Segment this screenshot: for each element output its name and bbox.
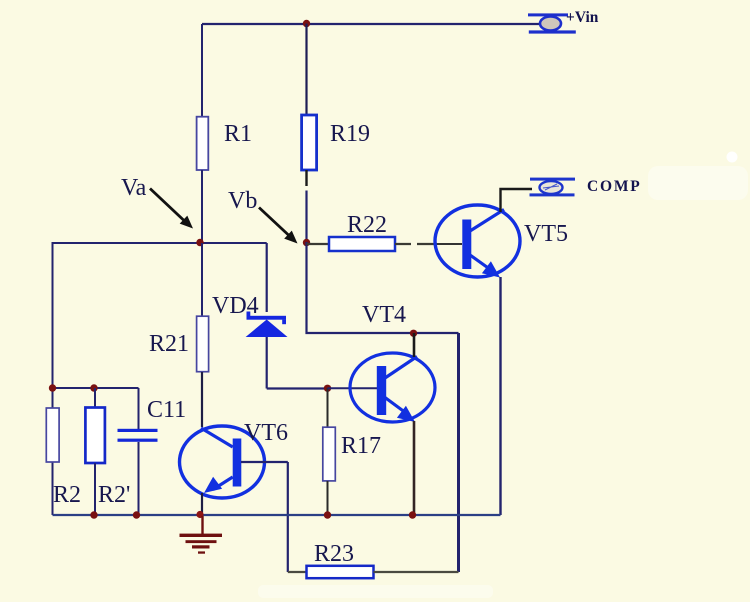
capacitor C11	[118, 388, 187, 515]
svg-text:VD4: VD4	[212, 293, 259, 319]
white patch artifact lower edge	[258, 585, 493, 598]
diode VD4 (zener)	[212, 293, 288, 337]
resistor R17	[323, 388, 381, 515]
node R2' top	[90, 384, 97, 391]
node Vb	[303, 239, 310, 246]
node VT4 collector	[410, 330, 417, 337]
resistor R19	[302, 24, 370, 242]
wire VD4 bottom	[266, 337, 268, 366]
svg-text:VT6: VT6	[244, 420, 288, 446]
resistor R1	[197, 24, 252, 243]
wire left rail	[52, 242, 54, 515]
node VT4 emitter bottom	[409, 511, 416, 518]
node C11 bottom	[133, 511, 140, 518]
white patch artifact right of COMP	[648, 166, 748, 200]
transistor VT5	[435, 205, 568, 278]
resistor R23	[288, 541, 459, 578]
svg-text:R17: R17	[341, 433, 381, 459]
wire VT5 emitter down	[499, 277, 501, 515]
connector COMP	[530, 178, 642, 197]
resistor R22	[307, 212, 436, 251]
svg-text:R21: R21	[149, 331, 189, 357]
wire VT6 base elbow	[241, 462, 288, 572]
wire VT4 base link	[328, 387, 378, 389]
resistor R2	[46, 408, 81, 508]
wire right vertical to R23	[457, 333, 460, 572]
node left rail mid	[49, 384, 56, 391]
wire left mid horizontal	[53, 387, 139, 389]
svg-text:R1: R1	[224, 121, 252, 147]
svg-text:VT4: VT4	[362, 302, 406, 328]
svg-text:C11: C11	[147, 397, 186, 423]
node R17 bottom	[324, 511, 331, 518]
svg-text:R19: R19	[330, 121, 370, 147]
node top junction	[303, 20, 310, 27]
wire VT6 emitter down	[201, 493, 203, 515]
resistor R2'	[85, 388, 130, 515]
svg-text:VT5: VT5	[524, 221, 568, 247]
arrow Vb	[259, 208, 298, 244]
wire node Va horizontal	[53, 242, 267, 244]
svg-text:R22: R22	[347, 212, 387, 238]
wire Vb branch down and right	[307, 242, 459, 333]
wire R21 to VT6 collector	[201, 372, 203, 427]
transistor VT6	[180, 420, 289, 498]
node VD4/R17/VT4 base	[324, 385, 331, 392]
svg-text:R2: R2	[53, 482, 81, 508]
wire top rail	[202, 23, 540, 25]
wire VT4 collector stub	[413, 333, 416, 357]
connector +Vin	[528, 9, 599, 34]
svg-text:Vb: Vb	[228, 188, 257, 214]
resistor R21	[149, 243, 209, 372]
wire VT5 collector to COMP	[501, 189, 533, 212]
node Va	[196, 239, 203, 246]
svg-text:+Vin: +Vin	[566, 9, 599, 26]
transistor VT4	[350, 302, 435, 422]
wire VD4 top	[266, 243, 268, 312]
svg-text:R23: R23	[314, 541, 354, 567]
node VT6 emitter / ground	[196, 511, 203, 518]
svg-text:COMP: COMP	[587, 178, 642, 195]
svg-text:R2': R2'	[98, 482, 130, 508]
wire bottom rail	[53, 514, 501, 516]
ground	[180, 516, 223, 554]
wire VT4 emitter down	[413, 421, 416, 515]
node R2' bottom	[90, 511, 97, 518]
arrow Va	[150, 189, 193, 229]
svg-text:Va: Va	[121, 175, 147, 201]
